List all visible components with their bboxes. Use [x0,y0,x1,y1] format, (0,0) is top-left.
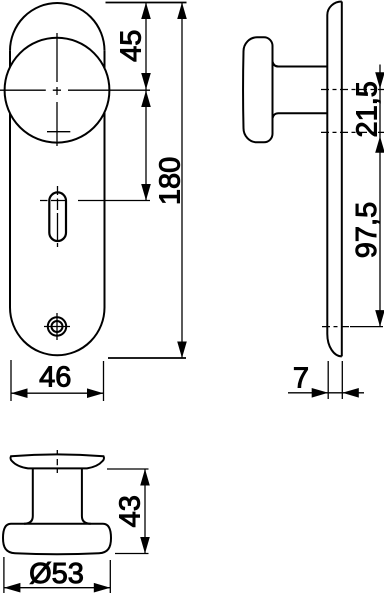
svg-text:43: 43 [115,495,147,527]
svg-text:180: 180 [155,157,187,205]
svg-text:7: 7 [293,362,309,394]
svg-text:45: 45 [115,30,147,62]
svg-text:97,5: 97,5 [351,202,383,258]
svg-text:Ø53: Ø53 [29,558,84,590]
svg-text:46: 46 [39,361,71,393]
svg-text:21,5: 21,5 [352,81,384,137]
